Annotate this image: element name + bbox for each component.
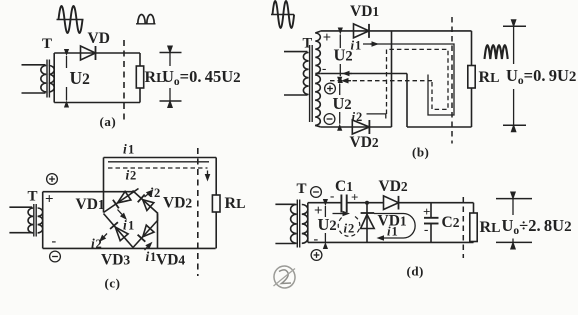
circled plus node (d) [311, 250, 322, 261]
transformer T primary winding (d) [291, 205, 297, 244]
capacitor C2 label (d) [442, 214, 460, 231]
sub-figure label (c) [105, 276, 121, 291]
current i1 label center (c) [123, 218, 134, 233]
dimension tick top (d) [496, 198, 532, 200]
dashed load boundary line (b) [451, 17, 453, 144]
current path i2 dashed loop (b) [387, 49, 449, 114]
C2 polarity - (d) [424, 222, 428, 237]
current i1 label (d) [387, 224, 398, 239]
svg-text:VD1: VD1 [76, 196, 105, 213]
svg-text:VD: VD [88, 30, 110, 47]
resistor RL (c) [212, 195, 220, 212]
svg-text:i: i [351, 38, 355, 53]
svg-text:i: i [91, 236, 95, 251]
transformer T label (a) [42, 36, 52, 52]
bridge side VD3 wire (c) [104, 214, 134, 248]
svg-text:1: 1 [150, 250, 156, 264]
dashed load boundary line (d) [462, 197, 464, 258]
svg-text:VD2: VD2 [163, 195, 192, 212]
svg-text:C2: C2 [442, 214, 460, 231]
U2 label (d) [318, 215, 337, 234]
transformer T core (a) [47, 60, 49, 98]
svg-text:i: i [146, 249, 150, 264]
U2 lower voltage arrow (b) [337, 77, 342, 131]
transformer T primary lead bottom (a) [22, 92, 46, 94]
wire bridge left riser (c) [103, 158, 105, 213]
wire top rail (b) [320, 30, 471, 32]
U2 upper label (b) [334, 46, 353, 65]
wire top rail (c) [43, 191, 134, 193]
dimension tick top (a) [160, 52, 182, 54]
diode VD1 (c) [113, 191, 131, 208]
dimension line and arrows (b) [511, 19, 517, 132]
transformer T primary winding (a) [41, 66, 46, 92]
diode VD2 label (c) [163, 195, 192, 212]
svg-text:2: 2 [130, 169, 136, 183]
wire RL bottom stub (c) [215, 212, 217, 248]
current path i1 annotation line (b) [363, 41, 454, 115]
svg-text:VD1: VD1 [350, 3, 379, 20]
svg-text:i: i [352, 109, 356, 124]
wire secondary rail (d) [307, 203, 309, 243]
wire top rail left (d) [308, 202, 342, 204]
current i2 hook line (b) [367, 114, 386, 119]
wire top rail mid (d) [347, 202, 384, 204]
svg-text:-: - [330, 188, 334, 203]
output equation Uo=2.8U2 (d) [502, 216, 572, 237]
transformer T core (d) [297, 200, 299, 248]
polarity - label (d) [314, 232, 319, 247]
transformer T secondary winding lower (b) [315, 75, 320, 125]
svg-text:Uo÷2. 8U2: Uo÷2. 8U2 [502, 216, 572, 237]
transformer T primary lead bottom (c) [9, 232, 32, 234]
transformer T label (b) [303, 36, 313, 52]
current i1 label (b) [351, 38, 362, 53]
diode VD2 label (b) [350, 134, 379, 151]
transformer T core (c) [34, 204, 36, 237]
capacitor C1 (d) [341, 195, 346, 213]
diode VD1 label (b) [350, 3, 379, 20]
wire right rail lower (a) [139, 88, 141, 103]
svg-text:(b): (b) [412, 145, 429, 160]
circled plus node (b) [325, 83, 336, 94]
dimension tick bottom (a) [160, 100, 182, 102]
svg-text:(c): (c) [105, 276, 121, 291]
transformer T label (d) [297, 181, 307, 197]
svg-text:VD2: VD2 [350, 134, 379, 151]
diode VD1 (b) [354, 24, 370, 38]
transformer T primary winding (c) [28, 208, 33, 233]
resistor RL label (a) [145, 69, 166, 86]
svg-text:T: T [303, 36, 313, 52]
polarity + label (c) [45, 192, 54, 208]
svg-text:i: i [126, 168, 130, 183]
resistor RL label (d) [480, 219, 501, 236]
svg-text:i: i [387, 224, 391, 239]
C1 polarity - (d) [330, 188, 334, 203]
polarity - label (c) [52, 234, 57, 249]
diode VD2 (d) [384, 196, 399, 210]
bridge side VD2 wire (c) [133, 191, 159, 214]
diode VD4 label (c) [156, 252, 185, 269]
svg-text:+: + [45, 192, 54, 208]
svg-text:i: i [344, 221, 348, 236]
transformer T primary lead top (d) [275, 203, 295, 205]
wire right rail upper (d) [473, 203, 475, 213]
polarity + label (d) [314, 203, 323, 219]
svg-text:U2: U2 [70, 68, 91, 88]
transformer T secondary winding (d) [302, 205, 308, 244]
capacitor C2 (d) [424, 203, 439, 243]
svg-text:i: i [150, 185, 154, 200]
current i2 arrow top right (c) [145, 190, 154, 198]
svg-text:VD2: VD2 [379, 178, 408, 195]
dimension tick bottom (b) [503, 124, 526, 126]
handwritten circled mark [272, 264, 297, 290]
wire right rail lower (b) [471, 88, 473, 127]
wire center tap line (b) [316, 73, 408, 75]
AC sine waveform symbol (a) [57, 6, 84, 33]
current i2 label (d) [344, 221, 355, 236]
current i2 dashed loop (d) [338, 216, 360, 236]
wire bottom rail VD2 segment (b) [320, 126, 391, 128]
transformer T primary winding (b) [303, 53, 308, 95]
diode VD1 label (c) [76, 196, 105, 213]
svg-text:-: - [314, 232, 319, 247]
circled minus node (d) [311, 187, 322, 198]
diode VD2 label (d) [379, 178, 408, 195]
dimension line and arrows (d) [510, 192, 516, 250]
resistor RL (d) [470, 213, 477, 242]
wire VD2 riser (b) [391, 31, 393, 127]
wire output top rail (c) [104, 157, 217, 159]
wire bottom rail (a) [54, 102, 140, 104]
current i2 label top right (c) [150, 185, 161, 200]
wire secondary rail (c) [42, 192, 44, 249]
sub-figure label (a) [100, 114, 117, 129]
current i2 label bottom left (c) [91, 236, 102, 251]
transformer T primary lead top (a) [22, 64, 46, 66]
wire right rail upper (a) [139, 53, 141, 66]
wire center tap drop (b) [406, 74, 408, 128]
sub-figure label (d) [407, 264, 424, 279]
svg-text:i: i [123, 218, 127, 233]
half-wave output waveform symbol (a) [136, 14, 156, 23]
full-wave output waveform symbol (b) [485, 45, 508, 59]
svg-text:2: 2 [356, 110, 362, 124]
wire return rail (b) [407, 126, 472, 128]
wire secondary bottom stub (b) [315, 125, 320, 126]
wire top rail right (d) [399, 202, 474, 204]
diode VD3 label (c) [101, 252, 130, 269]
sub-figure label (b) [412, 145, 429, 160]
svg-text:T: T [42, 36, 52, 52]
dashed load boundary line (c) [197, 148, 199, 276]
C2 polarity + (d) [423, 204, 430, 219]
diode VD3 (c) [110, 222, 128, 241]
svg-text:U2: U2 [333, 94, 352, 113]
current i1 label top (c) [123, 142, 134, 157]
transformer T secondary winding (a) [49, 66, 54, 92]
current path i1 annotation line (c) [108, 161, 209, 163]
svg-text:-: - [52, 234, 57, 249]
dashed load boundary line (a) [123, 40, 125, 122]
transformer T primary lead bottom (d) [275, 243, 295, 245]
current i1 arrow center (c) [118, 210, 128, 221]
svg-text:2: 2 [348, 222, 354, 236]
svg-text:(a): (a) [100, 114, 117, 129]
AC sine waveform symbol (b) [271, 1, 294, 28]
svg-text:Uo=0. 45U2: Uo=0. 45U2 [162, 67, 241, 88]
svg-text:Uo=0. 9U2: Uo=0. 9U2 [506, 66, 576, 87]
current i1 loop (d) [374, 214, 415, 241]
polarity - label (b) [322, 61, 326, 76]
diode VD2 (b) [352, 120, 369, 134]
wire top rail (a) [54, 52, 140, 54]
U2 lower label (b) [333, 94, 352, 113]
svg-text:1: 1 [355, 39, 361, 53]
current path i2 dashed return (b) [330, 78, 432, 84]
resistor RL (a) [136, 66, 143, 88]
transformer T primary lead bottom (b) [284, 94, 308, 96]
svg-text:VD4: VD4 [156, 252, 185, 269]
svg-text:VD3: VD3 [101, 252, 130, 269]
dimension tick top (b) [503, 25, 526, 27]
current return arrow i1 (b) [342, 71, 352, 77]
transformer T secondary winding upper (b) [315, 33, 320, 73]
svg-text:1: 1 [128, 219, 134, 233]
output equation Uo=0.9U2 (b) [506, 66, 576, 87]
diode VD2 (c) [138, 194, 154, 210]
capacitor C1 label (d) [335, 178, 353, 195]
svg-text:i: i [123, 142, 127, 157]
transformer T secondary winding (c) [38, 208, 43, 233]
diode VD1 label (d) [378, 213, 407, 230]
wire RL top stub (c) [215, 158, 217, 196]
dimension line and arrows (a) [167, 46, 173, 109]
svg-text:1: 1 [392, 225, 398, 239]
dimension tick bottom (d) [496, 241, 532, 243]
svg-text:1: 1 [128, 143, 134, 157]
svg-text:+: + [423, 204, 430, 219]
diode VD4 (c) [138, 225, 154, 242]
current path i2 dashed line (c) [108, 168, 210, 182]
node dot VD1 top (d) [365, 201, 369, 205]
C1 polarity + (d) [351, 190, 358, 205]
svg-text:RL: RL [225, 195, 246, 212]
U2 voltage arrow (a) [64, 49, 69, 108]
wire right rail upper (b) [471, 31, 473, 66]
current i2 label (b) [352, 109, 363, 124]
resistor RL label (b) [479, 69, 500, 86]
diode VD1 vertical (d) [361, 203, 375, 243]
svg-text:-: - [424, 222, 428, 237]
svg-text:T: T [28, 189, 38, 205]
current i2 label top (c) [126, 168, 137, 183]
transformer T primary lead top (b) [284, 51, 308, 53]
wire secondary rail left (a) [53, 53, 55, 103]
svg-text:U2: U2 [318, 215, 337, 234]
current i1 arrow bottom right (c) [145, 242, 153, 250]
U2 voltage arrow (d) [323, 199, 328, 249]
U2 upper voltage arrow (b) [338, 28, 343, 84]
wire right rail lower (d) [473, 241, 475, 244]
wire bottom rail (d) [308, 241, 474, 243]
svg-text:2: 2 [154, 186, 160, 200]
circled minus node (c) [50, 251, 61, 262]
current i2 loop arrow (d) [333, 211, 351, 217]
transformer T core (b) [310, 45, 313, 122]
output equation Uo=0.45U2 (a) [162, 67, 241, 88]
diode VD label (a) [88, 30, 110, 47]
current i1 label bottom right (c) [146, 249, 157, 264]
wire bottom rail (c) [43, 247, 216, 249]
circled plus node (c) [47, 174, 58, 185]
wire bridge right drop (c) [157, 214, 159, 249]
current i2 arrow bottom left (c) [99, 234, 107, 243]
svg-text:(d): (d) [407, 264, 424, 279]
circled minus node (b) [324, 114, 335, 125]
resistor RL label (c) [225, 195, 246, 212]
svg-text:T: T [297, 181, 307, 197]
wire secondary top stub (b) [315, 31, 320, 33]
U2 label (a) [70, 68, 91, 88]
svg-text:2: 2 [96, 237, 102, 251]
bridge side VD1 wire (c) [104, 189, 139, 213]
transformer T label (c) [28, 189, 38, 205]
svg-text:RL: RL [479, 69, 500, 86]
bridge side VD4 wire (c) [133, 214, 158, 248]
polarity + label (b) [323, 30, 331, 46]
svg-text:+: + [323, 30, 331, 46]
diode VD (a) [81, 46, 96, 60]
svg-text:RL: RL [480, 219, 501, 236]
transformer T primary lead top (c) [9, 206, 32, 208]
resistor RL (b) [468, 66, 475, 89]
